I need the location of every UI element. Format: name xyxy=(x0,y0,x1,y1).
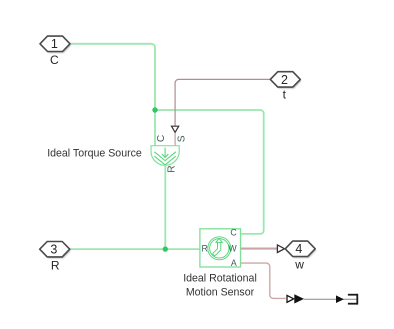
svg-text:R: R xyxy=(51,259,60,273)
svg-text:1: 1 xyxy=(51,37,58,51)
port 3 hexagon xyxy=(40,242,70,257)
port 1 hexagon shadow xyxy=(41,38,71,53)
bracket shape (open-left block edge) xyxy=(348,294,357,305)
svg-text:3: 3 xyxy=(50,243,57,257)
svg-text:C: C xyxy=(50,53,59,67)
svg-text:2: 2 xyxy=(281,73,288,87)
junction dot A xyxy=(152,107,157,112)
wire: arrowhead to torque source S pin xyxy=(174,133,176,146)
port 2 hexagon xyxy=(270,72,300,87)
wire: junction node down to torque source C pin xyxy=(154,110,156,146)
wire: port3 R to motion sensor R port xyxy=(70,248,200,250)
svg-text:w: w xyxy=(294,258,304,272)
junction dot B xyxy=(163,246,168,251)
svg-text:Ideal Torque Source: Ideal Torque Source xyxy=(47,148,142,160)
port 1 hexagon xyxy=(40,36,70,51)
wire: port1 C to junction node xyxy=(70,44,155,110)
port 4 hexagon xyxy=(285,241,315,256)
svg-text:R: R xyxy=(167,165,178,172)
wire: sensor A port down and right xyxy=(241,263,286,298)
torque source icon: down arrow with double chevron xyxy=(154,148,175,165)
svg-text:R: R xyxy=(202,244,208,254)
svg-text:A: A xyxy=(231,258,237,268)
port 2 hexagon shadow xyxy=(272,73,302,88)
svg-text:C: C xyxy=(230,227,237,237)
wire: torque source R pin down to bottom junction xyxy=(164,165,166,249)
filled arrowhead xyxy=(336,295,344,303)
sensor gauge icon xyxy=(208,237,231,260)
svg-text:C: C xyxy=(156,135,167,142)
block: Ideal Rotational Motion Sensor outline xyxy=(200,229,241,267)
signal wire to bracket xyxy=(304,298,357,300)
svg-text:Ideal Rotational: Ideal Rotational xyxy=(183,272,257,284)
port 3 hexagon shadow xyxy=(41,243,71,258)
port 4 hexagon shadow xyxy=(286,243,316,258)
svg-text:S: S xyxy=(177,135,188,142)
svg-text:4: 4 xyxy=(295,242,302,256)
svg-text:Motion Sensor: Motion Sensor xyxy=(186,286,255,298)
wire: port2 t to PS arrowhead above S pin xyxy=(175,79,270,126)
open triangle at line end xyxy=(287,295,294,302)
filled triangle block xyxy=(294,294,304,303)
wire: junction node right, down to motion sensor C port xyxy=(155,110,264,234)
wire: sensor W port to port4 arrowhead xyxy=(241,248,278,250)
svg-text:W: W xyxy=(228,244,237,254)
PS arrowhead into port4 xyxy=(277,245,284,253)
PS signal arrowhead into S pin xyxy=(172,126,179,132)
block: Ideal Torque Source outline xyxy=(151,146,179,166)
